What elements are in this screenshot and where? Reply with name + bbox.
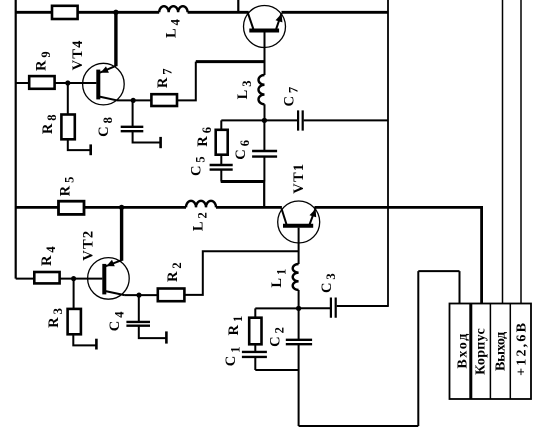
wire: R3 branch down from R4 line <box>73 279 75 309</box>
capacitor C3 <box>331 298 336 318</box>
resistor R2 <box>158 289 185 302</box>
node: junction C4 on VT2 emitter wire <box>136 293 141 298</box>
wire: middle rail, right part (VT1 emitter) turning down to connector "Корпус" <box>315 207 482 303</box>
capacitor C2 <box>286 340 312 344</box>
transistor VT1 <box>278 201 320 243</box>
node: junction VT2 collector / middle rail <box>119 205 124 210</box>
wire: junction right to C3 left plate <box>299 307 331 309</box>
transistor VT2 <box>88 258 130 300</box>
wire: junction left and down to R1 top <box>255 308 298 317</box>
wire: C3 right plate to long vertical <box>337 305 389 307</box>
resistor R1 <box>249 318 261 345</box>
wire: VT1 base lead down to L1 <box>298 228 300 264</box>
capacitor C8 <box>121 127 144 131</box>
inductor L4 <box>159 6 187 12</box>
resistor R9 <box>29 76 54 89</box>
inductor L3 <box>259 75 265 104</box>
ground bar (C8) <box>159 137 162 148</box>
wire: middle rail, left part (frame to VT1) <box>16 206 282 209</box>
wire: C5 bottom down <box>220 170 222 182</box>
wire: VT2 collector up to middle rail <box>120 207 123 260</box>
node: junction R8 on R9 line <box>65 80 70 85</box>
wire: top supply rail, right part (VT3 emitter to long vertical) <box>282 11 389 14</box>
wire: R1 bottom to C1 <box>254 344 256 352</box>
capacitor C1 <box>242 352 267 357</box>
ground bar (R3) <box>95 339 98 350</box>
transistor VT4 <box>83 63 125 105</box>
connector divider (thick, after Вход) <box>469 304 472 400</box>
wire: junction down to C2 top <box>298 308 300 339</box>
svg-text:Корпус: Корпус <box>474 328 489 375</box>
wire: R3 bottom right to ground bar <box>73 334 96 345</box>
wire: VT4 emitter to R7 <box>117 99 152 101</box>
resistor R5 <box>59 201 85 214</box>
node: junction VT4 collector / top rail <box>113 10 118 15</box>
connector divider (after Выход) <box>509 304 511 400</box>
wire: VT3 base lead down to L3 <box>264 33 266 76</box>
wire: VT4 collector up to top rail <box>114 12 117 66</box>
ground bar (C4) <box>165 331 168 343</box>
resistor R6 <box>216 130 228 155</box>
wire: thick line under C5/C6 <box>221 180 265 183</box>
transistor VT3 <box>244 6 286 48</box>
resistor (top-left, label cropped) <box>52 6 78 19</box>
wire: R7 output up to VT3 base line <box>177 62 196 101</box>
wire: R6 bottom to C5 <box>220 155 222 165</box>
wire: L1 bottom to junction <box>298 290 300 308</box>
node: junction L1 / R1 / C2 / C3 <box>296 306 301 311</box>
inductor L1 <box>293 264 299 290</box>
wire: VT2 emitter to R2 <box>124 294 157 296</box>
wire: C7 right plate to long vertical <box>304 119 388 121</box>
wire: C1 bottom down to bottom link line <box>254 357 256 370</box>
node: junction R3 on R4 line <box>71 276 76 281</box>
capacitor C6 <box>252 151 277 157</box>
svg-text:+12,6В: +12,6В <box>514 321 529 376</box>
svg-text:Выход: Выход <box>493 332 508 371</box>
capacitor C7 <box>298 110 303 130</box>
svg-text:VT4: VT4 <box>70 39 86 70</box>
wire: input route to connector "Вход" <box>299 271 460 426</box>
connector block outline <box>450 304 532 400</box>
ground bar (R8) <box>89 144 92 155</box>
resistor R3 <box>68 309 81 334</box>
svg-text:VT1: VT1 <box>291 163 307 194</box>
svg-text:Вход: Вход <box>456 332 471 369</box>
wire: junction down to C6 top <box>263 120 265 151</box>
resistor R7 <box>151 94 177 106</box>
wire: bottom link line C1 to C2 <box>255 369 298 371</box>
wire: left frame vertical line (cropped at top) <box>15 0 17 279</box>
inductor L2 <box>186 201 216 208</box>
wire: R8 branch down from R9 line, then right to ground bar <box>68 83 91 150</box>
wire: C2 bottom continuing down to input route <box>298 344 300 426</box>
connector divider (after Корпус) <box>489 304 491 400</box>
wire: C4 branch down from emitter wire, then right to ground bar <box>139 295 167 338</box>
resistor R8 <box>61 115 74 140</box>
wire: R9 line from frame to VT4 base <box>16 82 97 84</box>
wire: L3 bottom to junction <box>264 104 266 120</box>
wire: thick line into VT3 base lead <box>196 60 265 63</box>
wire: junction to R6 top <box>221 120 264 129</box>
wire: right rail to "Выход" (cropped at top) <box>502 0 504 304</box>
wire: top supply rail, left part (to VT3) <box>16 11 249 14</box>
capacitor C5 <box>210 165 233 170</box>
wire: junction right to C7 left plate <box>264 119 297 121</box>
node: junction C8 on VT4 emitter wire <box>131 98 136 103</box>
wire: R2 output up and right to VT1 base lead <box>184 251 298 295</box>
wire: frame corner to R4 and on to VT2 base <box>16 278 103 280</box>
node: junction L3 / R6 / C6 / C7 <box>262 118 267 123</box>
svg-text:VT2: VT2 <box>81 230 97 261</box>
wire: right rail to "+12,6В" (cropped at top) <box>520 0 522 304</box>
capacitor C4 <box>126 322 150 326</box>
resistor R4 <box>34 272 59 283</box>
wire: drop from thick line to middle rail <box>263 182 265 208</box>
wire: C8 branch down from emitter wire, then right to ground bar <box>133 100 161 142</box>
wire: C6 bottom to thick line <box>263 157 265 182</box>
wire: vertical line from image top to top rail at VT3 base area <box>237 0 239 12</box>
wire: long vertical line x=388 (cropped at top) down to C3 corner <box>387 0 389 306</box>
